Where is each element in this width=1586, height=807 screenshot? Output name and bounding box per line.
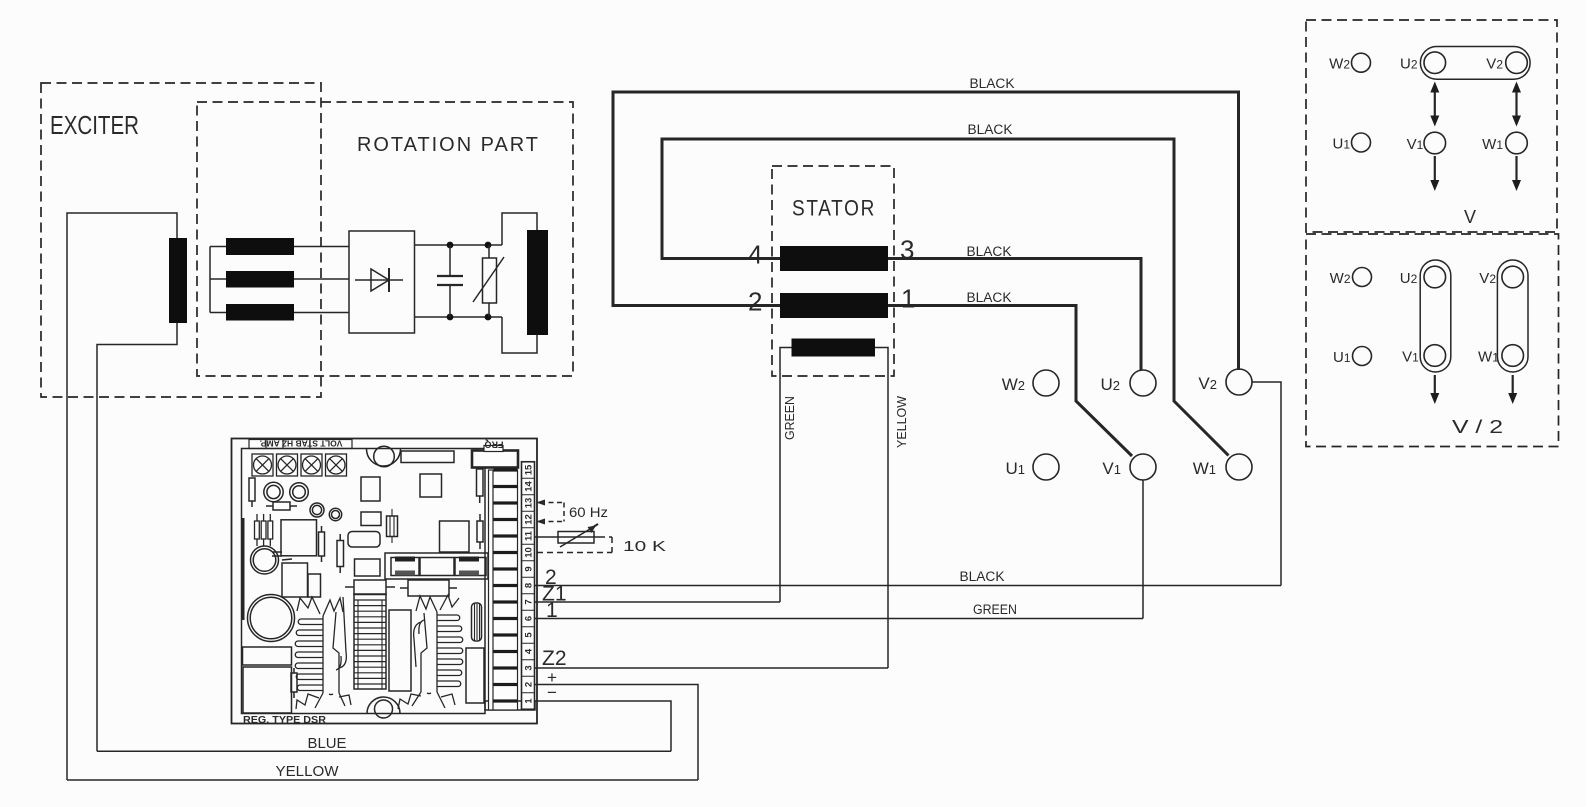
pin 7 xyxy=(494,600,518,603)
V diagram terminal V1 xyxy=(1424,132,1446,154)
regulator board outer edge xyxy=(232,439,538,724)
rotation part enclosure box xyxy=(197,102,573,376)
svg-text:W2: W2 xyxy=(1002,375,1025,394)
external potentiometer wire xyxy=(534,536,599,538)
striped capacitor vertical xyxy=(472,603,482,641)
mounting hole top xyxy=(367,449,401,466)
fuse holder assembly xyxy=(385,553,488,579)
exciter stator winding xyxy=(169,238,187,323)
varistor xyxy=(488,245,490,317)
stator winding 4-3 xyxy=(780,246,888,271)
resistor small bottom-left xyxy=(291,673,297,692)
rect right bottom xyxy=(466,648,484,703)
pin 3 xyxy=(494,666,518,669)
pin 2 xyxy=(494,683,518,686)
wire V2 to regulator terminal 2 (black sensing) xyxy=(1252,382,1281,586)
V diagram terminal V2 xyxy=(1506,52,1528,74)
svg-text:7: 7 xyxy=(523,599,534,604)
main field winding xyxy=(527,230,548,335)
wire to main field winding bottom xyxy=(502,317,537,353)
terminal W2 xyxy=(1033,370,1059,396)
svg-text:U2: U2 xyxy=(1400,270,1418,287)
svg-text:14: 14 xyxy=(523,481,534,492)
V diagram output arrow W1 xyxy=(1515,156,1517,182)
svg-text:3: 3 xyxy=(523,665,534,670)
wire black: stator 1 to terminal V1 (thick) xyxy=(888,306,1132,457)
capacitor C1 xyxy=(449,245,451,317)
exciter enclosure box xyxy=(41,83,321,397)
svg-text:YELLOW: YELLOW xyxy=(276,763,340,780)
svg-text:U1: U1 xyxy=(1005,459,1025,478)
svg-text:12: 12 xyxy=(523,514,534,525)
pin 14 xyxy=(494,485,518,488)
svg-text:VOLT STAB HZ AMP.: VOLT STAB HZ AMP. xyxy=(260,439,343,449)
transformer square T1 xyxy=(281,520,317,556)
svg-text:10: 10 xyxy=(523,547,534,558)
svg-text:6: 6 xyxy=(523,616,534,621)
svg-text:ROTATION PART: ROTATION PART xyxy=(357,134,540,156)
V2 diagram link bar U2-V1 xyxy=(1420,260,1451,372)
resistor vertical right b xyxy=(477,521,483,542)
terminal W1 xyxy=(1226,454,1252,480)
svg-text:4: 4 xyxy=(523,648,534,654)
screw terminal 4 xyxy=(326,454,347,476)
svg-text:V1: V1 xyxy=(1102,459,1121,478)
svg-text:EXCITER: EXCITER xyxy=(50,110,139,140)
screw terminal 3 xyxy=(301,454,322,476)
svg-text:BLACK: BLACK xyxy=(970,76,1015,91)
IC square mid right xyxy=(440,521,470,552)
wire regulator terminal row 2 xyxy=(534,585,1281,587)
terminal V1 xyxy=(1130,454,1156,480)
svg-text:V / 2: V / 2 xyxy=(1452,417,1503,437)
V2 diagram output arrow V1 xyxy=(1434,375,1436,395)
wire regulator terminal row 1 xyxy=(534,618,1143,620)
rect mid c xyxy=(355,559,381,576)
wire bridge negative output xyxy=(415,316,503,318)
IC rect mid column a xyxy=(361,477,380,501)
electrolytic capacitor big xyxy=(248,595,295,642)
svg-text:BLACK: BLACK xyxy=(967,290,1012,305)
V diagram terminal U2 xyxy=(1424,52,1446,74)
wire bridge positive output xyxy=(415,244,503,246)
svg-text:U2: U2 xyxy=(1400,56,1418,73)
IC rect mid column b xyxy=(361,512,381,526)
svg-text:W2: W2 xyxy=(1329,56,1350,73)
svg-text:U1: U1 xyxy=(1333,349,1351,366)
pin 10 xyxy=(494,551,518,554)
wire V1 to regulator terminal 1 (green sensing) xyxy=(1142,480,1144,619)
svg-text:BLACK: BLACK xyxy=(968,122,1013,137)
regulator board inner edge xyxy=(242,449,486,714)
junction dot xyxy=(447,314,454,321)
svg-text:1: 1 xyxy=(523,698,534,704)
svg-text:STATOR: STATOR xyxy=(792,196,876,221)
svg-text:V1: V1 xyxy=(1407,136,1424,153)
resistor vertical mid xyxy=(319,532,325,556)
V diagram terminal U1 xyxy=(1352,133,1371,152)
V connection diagram box xyxy=(1306,20,1557,232)
crystal component xyxy=(387,516,398,537)
svg-text:GREEN: GREEN xyxy=(973,602,1017,617)
junction dot xyxy=(447,242,454,249)
resistor vertical mid2 xyxy=(337,541,344,567)
wire rotor winding 3 to bridge xyxy=(294,312,349,314)
wire rotor winding 2 to bridge xyxy=(294,278,349,280)
stator enclosure box xyxy=(772,166,894,376)
rotor winding 3 xyxy=(226,304,294,321)
capacitor ring big xyxy=(251,546,279,574)
rect bottom-left b xyxy=(243,667,292,713)
svg-text:2: 2 xyxy=(748,287,762,317)
stator winding 2-1 xyxy=(780,293,888,318)
wire rotor winding 3 left stub xyxy=(210,312,226,314)
board header label strip xyxy=(249,440,352,449)
wire aux winding left to Z1 (green) xyxy=(780,348,792,603)
wire black: stator 4 to terminal W1 (thick loop) xyxy=(662,139,1229,456)
terminal strip footer xyxy=(485,701,535,710)
terminal strip number column xyxy=(522,462,535,710)
rounded rect mid xyxy=(348,532,380,548)
pin 4 xyxy=(494,650,518,653)
V2 diagram terminal W2 xyxy=(1353,268,1372,287)
capacitor round C-b xyxy=(290,483,309,502)
FRQ connector block xyxy=(472,451,518,468)
V diagram link bar U2-V2 xyxy=(1420,47,1530,80)
svg-text:W1: W1 xyxy=(1482,136,1503,153)
svg-text:9: 9 xyxy=(523,566,534,571)
svg-text:Z2: Z2 xyxy=(542,647,567,670)
svg-text:YELLOW: YELLOW xyxy=(894,395,909,448)
rotor winding 1 xyxy=(226,238,294,255)
V diagram output arrow V1 xyxy=(1434,156,1436,182)
V2 diagram terminal U1 xyxy=(1353,347,1372,366)
svg-text:V2: V2 xyxy=(1479,270,1496,287)
svg-text:REG. TYPE DSR: REG. TYPE DSR xyxy=(243,714,326,726)
block rect tall xyxy=(282,563,308,597)
diode symbol inside bridge xyxy=(355,279,403,281)
arrow into terminal 13 xyxy=(536,500,545,506)
screw terminal 2 xyxy=(277,454,298,476)
svg-text:BLACK: BLACK xyxy=(960,569,1005,584)
rect bottom-left a xyxy=(243,647,292,665)
svg-text:11: 11 xyxy=(523,530,534,541)
svg-text:10 K: 10 K xyxy=(623,539,666,555)
svg-text:BLACK: BLACK xyxy=(967,244,1012,259)
potentiometer arrow xyxy=(560,529,590,547)
svg-text:W1: W1 xyxy=(1193,459,1216,478)
wire aux winding right to Z2 (yellow) xyxy=(875,348,888,669)
pin 12 xyxy=(494,518,518,521)
svg-text:GREEN: GREEN xyxy=(782,396,797,440)
heatsink left xyxy=(295,597,351,709)
V2 diagram output arrow W1 xyxy=(1512,375,1514,395)
svg-text:U1: U1 xyxy=(1332,136,1350,153)
pin 8 xyxy=(494,584,518,587)
blue bus wire xyxy=(97,750,671,752)
capacitor round C-d xyxy=(329,508,341,520)
pin 13 xyxy=(494,501,518,504)
capacitor round C-a xyxy=(264,482,283,501)
pin 15 xyxy=(494,468,518,471)
capacitor round C-c xyxy=(310,503,324,517)
heatsink right xyxy=(398,595,463,709)
board inner-left thick trace xyxy=(242,518,245,620)
wire to main field winding top xyxy=(502,213,537,245)
wire exciter winding top to yellow bus xyxy=(67,213,177,780)
svg-text:1: 1 xyxy=(546,599,558,622)
V diagram double arrow V2-W1 xyxy=(1515,90,1517,118)
rotor winding common bus wire xyxy=(209,247,211,313)
svg-text:8: 8 xyxy=(523,583,534,588)
pin 5 xyxy=(494,633,518,636)
rotor winding 2 xyxy=(226,271,294,288)
svg-text:1: 1 xyxy=(901,284,915,314)
wire regulator terminal row plus to yellow bus xyxy=(534,685,698,781)
pin 6 xyxy=(494,617,518,620)
junction dot xyxy=(485,242,492,249)
rect below fuse a xyxy=(354,580,386,595)
svg-text:BLUE: BLUE xyxy=(308,735,347,752)
pin 1 xyxy=(494,699,518,702)
pin 9 xyxy=(494,567,518,570)
potentiometer body xyxy=(558,532,594,544)
svg-text:13: 13 xyxy=(523,498,534,509)
IC square top mid xyxy=(420,474,442,497)
V diagram terminal W1 xyxy=(1506,132,1528,154)
screw terminal 1 xyxy=(252,454,273,476)
wire black: stator 2 to terminal V2 (thick loop) xyxy=(613,92,1239,370)
svg-text:V2: V2 xyxy=(1486,56,1503,73)
junction dot xyxy=(485,314,492,321)
wire rotor winding 1 left stub xyxy=(210,246,226,248)
terminal strip body xyxy=(489,470,518,710)
power device rect xyxy=(389,610,411,691)
wire regulator terminal row minus to blue bus xyxy=(534,701,671,751)
V diagram terminal W2 xyxy=(1352,53,1371,72)
svg-text:V: V xyxy=(1464,207,1476,227)
wire rotor winding 2 left stub xyxy=(210,278,226,280)
svg-text:60 Hz: 60 Hz xyxy=(569,505,608,520)
pin 11 xyxy=(494,534,518,537)
rect below fuse b xyxy=(408,580,449,596)
wire exciter winding bottom to blue bus xyxy=(97,323,177,751)
rotating rectifier bridge xyxy=(349,231,415,333)
transformer toothed core xyxy=(354,594,386,689)
V2 diagram terminal W1 xyxy=(1502,345,1524,367)
resistor vertical right a xyxy=(477,469,484,496)
svg-text:FRQ: FRQ xyxy=(485,440,504,450)
resistor R vertical left xyxy=(249,478,255,501)
terminal V2 xyxy=(1226,369,1252,395)
svg-text:U2: U2 xyxy=(1100,375,1120,394)
terminal U1 xyxy=(1033,454,1059,480)
svg-text:5: 5 xyxy=(523,632,534,638)
terminal strip contacts and pin numbers xyxy=(494,464,535,704)
terminal U2 xyxy=(1130,370,1156,396)
V diagram double arrow U2-V1 xyxy=(1434,90,1436,118)
mounting hole bottom xyxy=(367,697,400,714)
60Hz select bracket dashed xyxy=(540,503,564,522)
yellow bus wire xyxy=(67,779,698,781)
svg-text:V1: V1 xyxy=(1402,349,1419,366)
svg-text:2: 2 xyxy=(523,682,534,687)
V/2 connection diagram box xyxy=(1306,234,1559,447)
svg-text:15: 15 xyxy=(523,464,534,475)
V2 diagram terminal U2 xyxy=(1424,266,1446,288)
svg-text:−: − xyxy=(547,683,557,702)
choke 3-bar component xyxy=(255,514,273,546)
svg-text:W2: W2 xyxy=(1330,270,1351,287)
svg-text:W1: W1 xyxy=(1478,349,1499,366)
V2 diagram terminal V1 xyxy=(1424,345,1446,367)
wire regulator terminal row Z1 xyxy=(534,601,780,603)
potentiometer dashed return xyxy=(537,537,612,553)
relay rectangle top xyxy=(401,451,454,463)
V2 diagram terminal V2 xyxy=(1502,266,1524,288)
wire regulator terminal row Z2 xyxy=(534,667,888,669)
block rect small xyxy=(308,574,321,597)
arrow into terminal 12 xyxy=(536,519,545,525)
resistor horizontal small xyxy=(273,502,290,510)
svg-text:4: 4 xyxy=(748,240,762,270)
V2 diagram link bar V2-W1 xyxy=(1497,260,1528,372)
stator auxiliary winding xyxy=(792,339,876,357)
svg-text:V2: V2 xyxy=(1198,374,1217,393)
wire rotor winding 1 to bridge xyxy=(294,246,349,248)
wire black: stator 3 to terminal U2 (thick) xyxy=(888,259,1141,371)
